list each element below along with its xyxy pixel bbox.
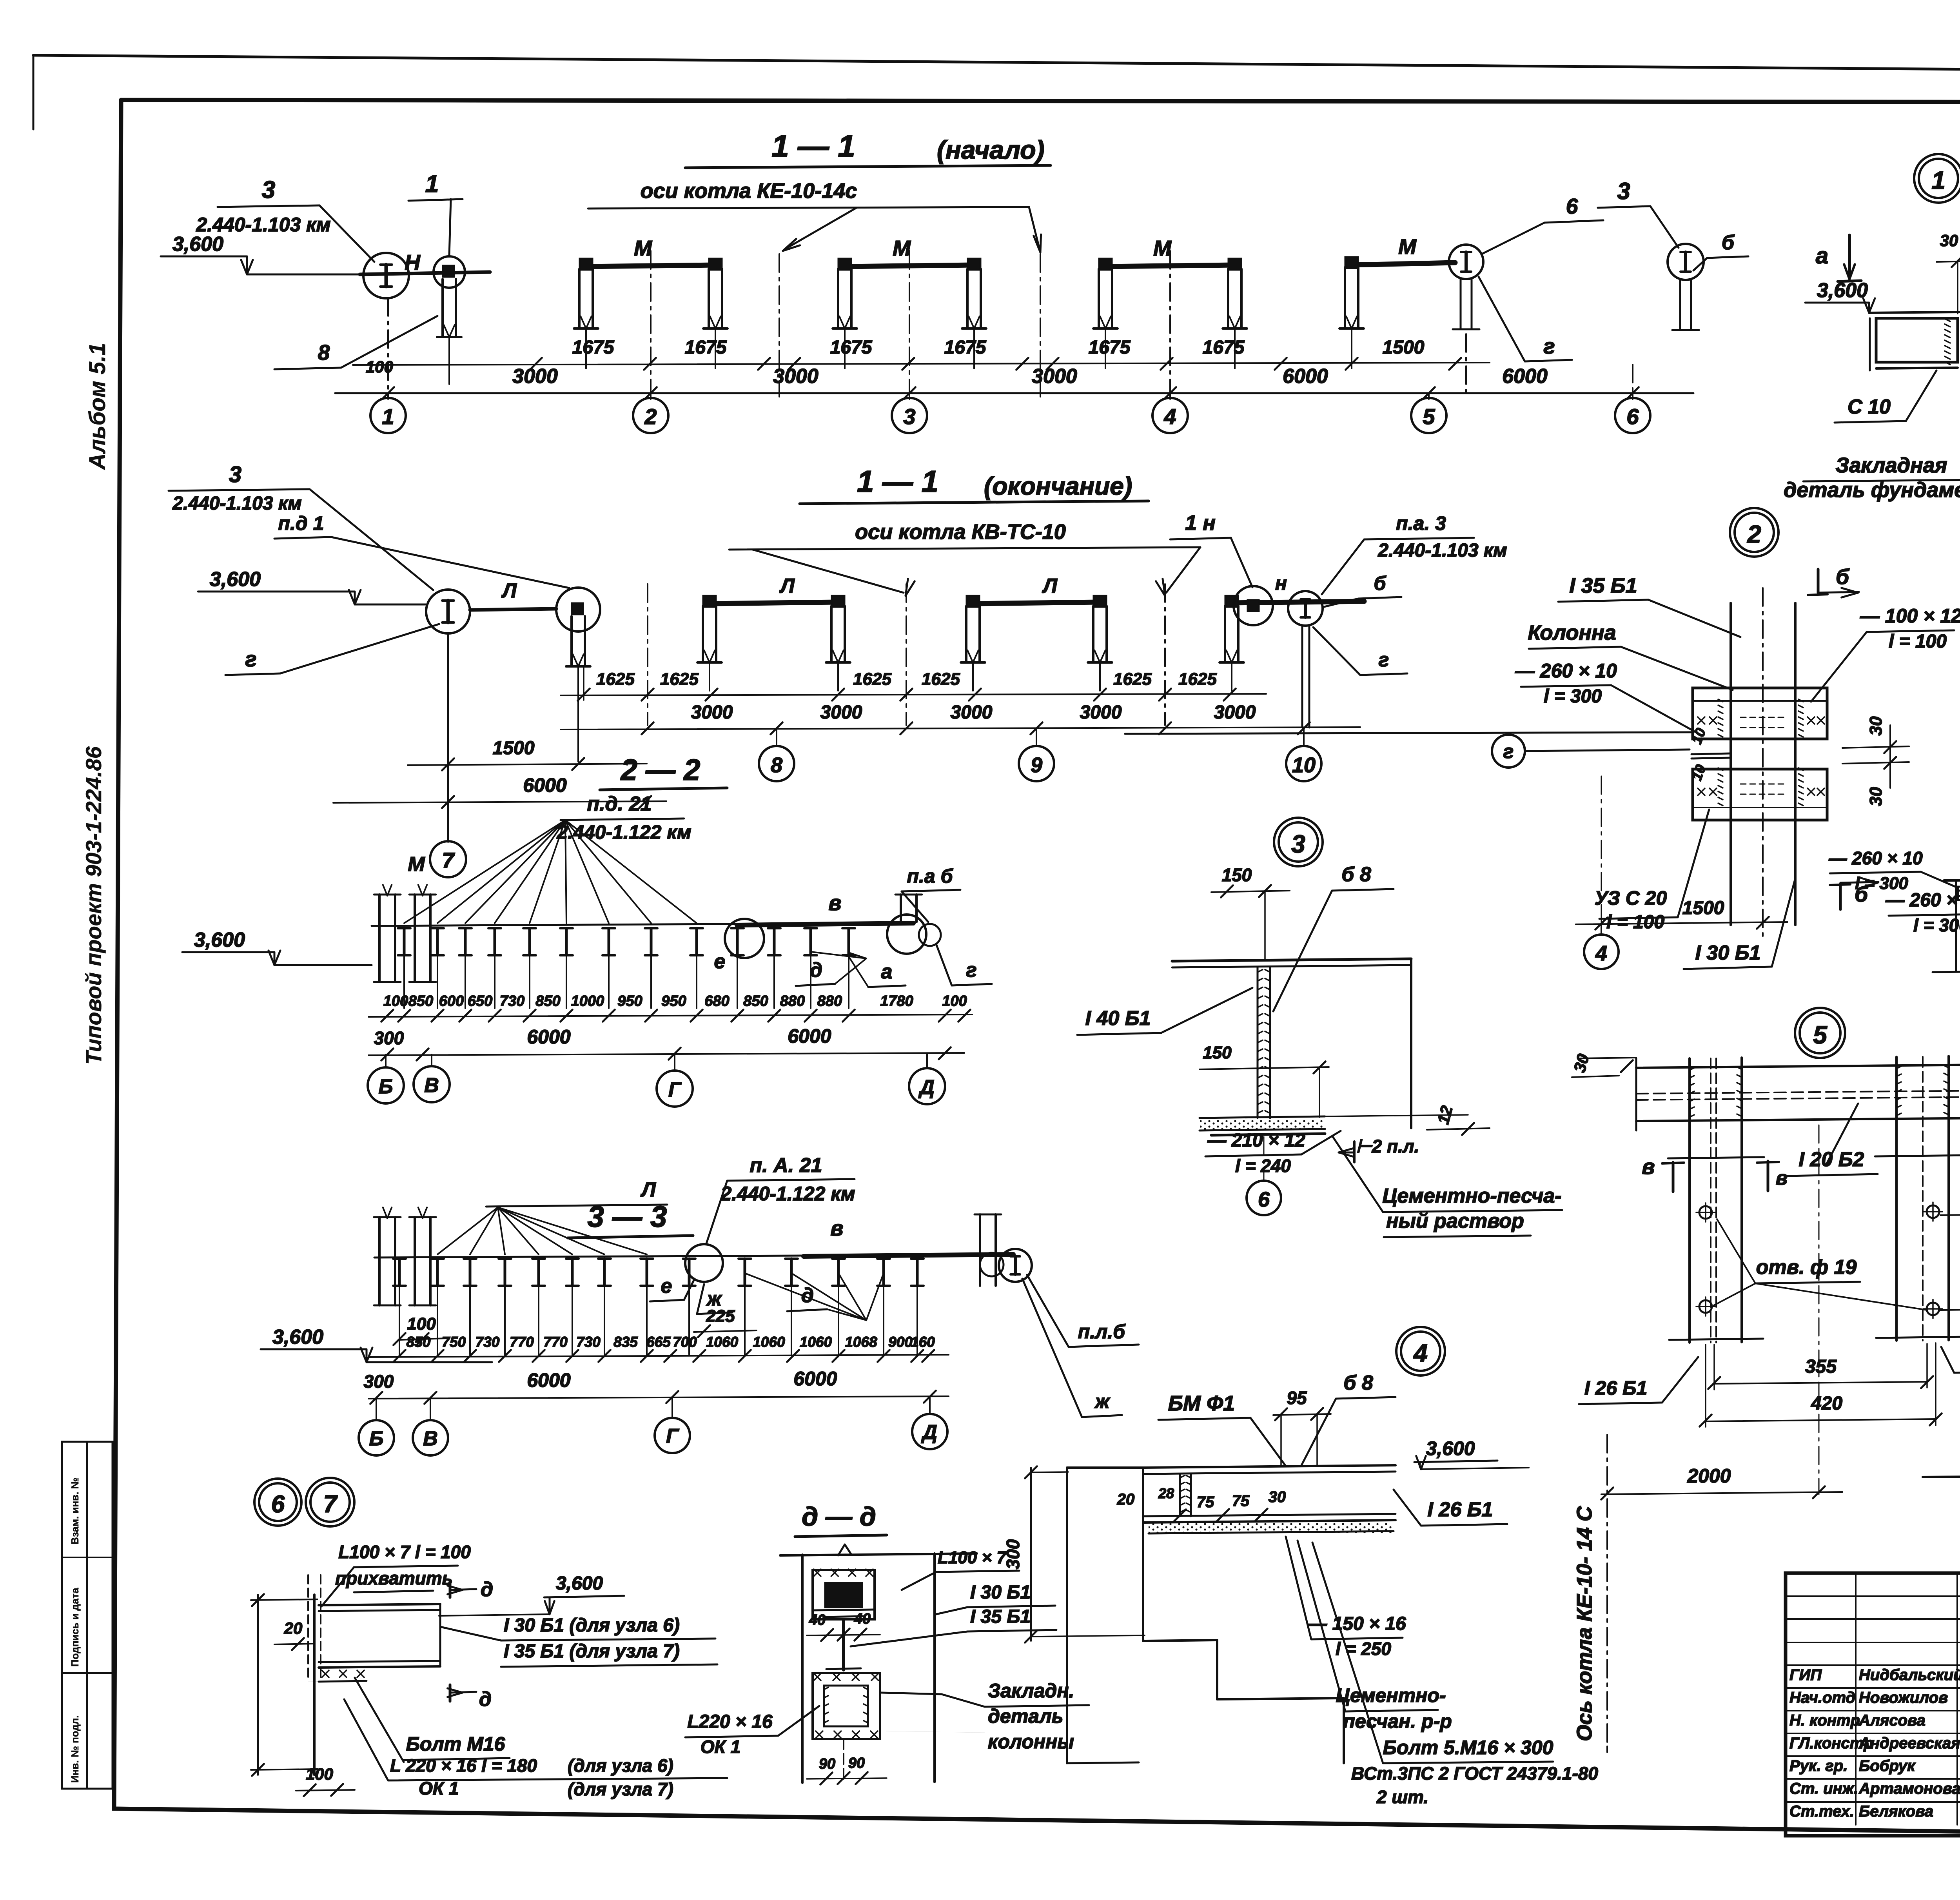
- svg-text:4: 4: [1413, 1339, 1428, 1367]
- node circle at axis 6: [1668, 244, 1704, 280]
- svg-text:М: М: [893, 236, 911, 260]
- axis circle 4 uzel2: [1601, 924, 1602, 934]
- svg-text:Д: Д: [921, 1421, 937, 1444]
- svg-text:8: 8: [771, 753, 782, 777]
- uzel2 plate assembly: [1693, 688, 1827, 739]
- svg-text:850: 850: [408, 993, 433, 1009]
- svg-text:г: г: [966, 959, 977, 982]
- svg-text:2.440-1.122 км: 2.440-1.122 км: [720, 1183, 855, 1205]
- svg-text:95: 95: [1287, 1388, 1307, 1408]
- svg-text:6: 6: [1566, 194, 1578, 218]
- svg-text:I 35 Б1 (для узла 7): I 35 Б1 (для узла 7): [504, 1641, 680, 1662]
- svg-text:3000: 3000: [691, 702, 733, 723]
- svg-text:БМ Ф1: БМ Ф1: [1168, 1392, 1235, 1415]
- margin stamp boxes: [62, 1442, 113, 1789]
- svg-text:3,600: 3,600: [172, 233, 223, 256]
- svg-text:оси котла КВ-ТС-10: оси котла КВ-ТС-10: [855, 520, 1066, 544]
- svg-text:2000: 2000: [1687, 1465, 1731, 1487]
- svg-text:1625: 1625: [596, 670, 635, 689]
- svg-text:880: 880: [780, 993, 805, 1009]
- svg-text:2: 2: [644, 404, 657, 429]
- svg-text:Б: Б: [369, 1427, 384, 1450]
- beam segment A: [360, 272, 490, 274]
- svg-text:(для узла 6): (для узла 6): [568, 1755, 673, 1776]
- svg-text:1068: 1068: [845, 1334, 877, 1350]
- svg-text:1: 1: [382, 404, 394, 429]
- svg-text:20: 20: [284, 1619, 303, 1637]
- svg-text:I 30 Б1: I 30 Б1: [1695, 942, 1761, 964]
- svg-text:Закладная: Закладная: [1836, 454, 1947, 477]
- svg-text:8: 8: [318, 340, 330, 365]
- svg-text:300: 300: [364, 1371, 394, 1392]
- svg-text:д: д: [481, 1578, 493, 1601]
- svg-text:п.д 1: п.д 1: [278, 512, 324, 534]
- svg-text:Цементно-песча-: Цементно-песча-: [1382, 1185, 1561, 1207]
- beam 3-3: [374, 1256, 804, 1258]
- svg-text:ВСт.3ПС 2 ГОСТ 24379.1-80: ВСт.3ПС 2 ГОСТ 24379.1-80: [1351, 1763, 1598, 1784]
- svg-text:7: 7: [323, 1491, 338, 1518]
- svg-text:l = 100: l = 100: [1889, 631, 1947, 652]
- svg-text:880: 880: [817, 993, 842, 1009]
- svg-text:ОК 1: ОК 1: [419, 1778, 459, 1798]
- svg-text:L100 × 7 l = 100: L100 × 7 l = 100: [338, 1542, 471, 1562]
- svg-text:2 — 2: 2 — 2: [620, 753, 701, 787]
- svg-text:Белякова: Белякова: [1859, 1803, 1933, 1820]
- svg-text:1675: 1675: [685, 337, 727, 358]
- svg-text:75: 75: [1232, 1492, 1250, 1510]
- axis line: [909, 251, 910, 397]
- svg-text:Артамонова: Артамонова: [1858, 1780, 1960, 1797]
- M beam at axis 1660: [586, 265, 715, 267]
- svg-text:6: 6: [1258, 1188, 1270, 1211]
- svg-text:п.а б: п.а б: [907, 865, 953, 887]
- uzel3 beam I40: [1172, 959, 1411, 961]
- axis circles 1-6: [387, 393, 389, 399]
- svg-text:в: в: [1776, 1167, 1788, 1189]
- svg-text:Л: Л: [640, 1178, 656, 1201]
- right node 2-2: [887, 915, 926, 954]
- node circle b-g: [1449, 245, 1483, 279]
- node marker circle 3: [1274, 818, 1323, 866]
- svg-text:д: д: [479, 1688, 492, 1711]
- svg-text:3000: 3000: [1080, 702, 1122, 723]
- svg-text:3000: 3000: [512, 365, 558, 388]
- svg-text:1625: 1625: [1178, 670, 1217, 689]
- svg-text:665: 665: [646, 1334, 671, 1350]
- svg-text:770: 770: [510, 1334, 534, 1350]
- svg-text:Д: Д: [918, 1076, 935, 1099]
- node circle e 2-2: [725, 919, 764, 958]
- beam segment 3 and node 1n: [1230, 601, 1364, 603]
- svg-text:2 шт.: 2 шт.: [1376, 1787, 1428, 1807]
- d-d I beam symbol: [842, 1619, 845, 1670]
- svg-text:4: 4: [1595, 942, 1607, 965]
- svg-text:1625: 1625: [853, 670, 891, 689]
- dim 300 uzel4: [1030, 1468, 1032, 1641]
- svg-text:ГИП: ГИП: [1789, 1666, 1822, 1684]
- dim row 1625 okonchanie: [561, 694, 1266, 695]
- svg-text:в: в: [1642, 1154, 1655, 1179]
- svg-text:деталь фундамента: деталь фундамента: [1784, 478, 1960, 502]
- svg-text:900: 900: [888, 1334, 913, 1350]
- svg-text:7: 7: [442, 848, 455, 873]
- svg-text:Бобрук: Бобрук: [1859, 1757, 1916, 1775]
- svg-text:1060: 1060: [706, 1334, 739, 1350]
- svg-text:п.а. 3: п.а. 3: [1396, 512, 1446, 534]
- svg-text:1060: 1060: [753, 1334, 785, 1350]
- svg-text:3000: 3000: [820, 702, 862, 723]
- svg-text:6000: 6000: [788, 1025, 831, 1047]
- svg-text:850: 850: [743, 993, 768, 1009]
- svg-text:I 35 Б1: I 35 Б1: [1569, 574, 1637, 597]
- svg-text:420: 420: [1811, 1393, 1842, 1414]
- svg-text:Алясова: Алясова: [1858, 1712, 1926, 1729]
- svg-text:Подпись и дата: Подпись и дата: [69, 1588, 81, 1667]
- dim 355 420 uzel5: [1714, 1382, 1927, 1384]
- svg-text:ОК 1: ОК 1: [701, 1737, 740, 1757]
- svg-text:100: 100: [366, 357, 393, 376]
- columns left 2-2: [378, 895, 381, 982]
- uzel4 foundation outline: [1067, 1466, 1143, 1469]
- axis circle 6 uzel3: [1263, 1137, 1265, 1180]
- uzel5 left column: [1688, 1058, 1691, 1343]
- svg-text:5: 5: [1813, 1021, 1828, 1049]
- svg-text:L100 × 7: L100 × 7: [938, 1548, 1007, 1567]
- section mark d lower: [449, 1685, 452, 1701]
- svg-text:770: 770: [543, 1334, 568, 1350]
- svg-text:950: 950: [617, 993, 642, 1009]
- axis circles B V G D 2-2: [385, 1054, 387, 1067]
- svg-text:L220 × 16: L220 × 16: [687, 1711, 773, 1732]
- svg-text:Колонна: Колонна: [1528, 621, 1616, 644]
- M beam at axis 2985: [1105, 265, 1235, 267]
- svg-text:30: 30: [1866, 787, 1886, 806]
- svg-text:УЗ С 20: УЗ С 20: [1595, 887, 1667, 909]
- svg-text:Взам. инв. №: Взам. инв. №: [69, 1477, 81, 1544]
- svg-text:9: 9: [1031, 753, 1042, 777]
- svg-text:в: в: [828, 891, 841, 915]
- svg-text:6: 6: [271, 1491, 285, 1518]
- svg-text:С 10: С 10: [1847, 396, 1891, 418]
- dimension row 1675: [353, 363, 1490, 365]
- svg-text:1675: 1675: [1089, 337, 1131, 358]
- svg-text:l = 300: l = 300: [1913, 915, 1960, 935]
- M beam at axis 5 with node: [1352, 263, 1455, 265]
- svg-text:М: М: [634, 236, 652, 260]
- svg-text:Ст.тех.: Ст.тех.: [1789, 1803, 1854, 1820]
- dim line left okonchanie: [333, 801, 666, 803]
- svg-text:1500: 1500: [1682, 898, 1724, 918]
- svg-text:1625: 1625: [922, 670, 960, 689]
- svg-text:225: 225: [706, 1307, 735, 1326]
- sheet top edge line: [33, 55, 1960, 74]
- L beam segments okonchanie: [710, 602, 838, 604]
- svg-text:б: б: [1722, 231, 1735, 254]
- svg-text:6000: 6000: [527, 1026, 570, 1048]
- svg-text:Нидбальский: Нидбальский: [1859, 1666, 1960, 1684]
- svg-text:1675: 1675: [830, 337, 873, 358]
- axis circles 8 9 10: [776, 728, 777, 746]
- svg-text:3,600: 3,600: [194, 929, 245, 951]
- right columns 2-2: [900, 895, 902, 922]
- svg-text:3,600: 3,600: [272, 1326, 323, 1348]
- uzel5 right column: [1895, 1057, 1898, 1341]
- svg-text:оси котла КЕ-10-14с: оси котла КЕ-10-14с: [641, 179, 857, 203]
- svg-text:1 — 1: 1 — 1: [771, 129, 855, 163]
- node marker circle 4: [1396, 1327, 1445, 1376]
- g-g block: [1944, 879, 1960, 880]
- svg-text:б: б: [1836, 564, 1850, 589]
- svg-text:3: 3: [1617, 178, 1630, 204]
- svg-text:— 260 × 10: — 260 × 10: [1828, 848, 1923, 868]
- svg-text:1675: 1675: [1203, 337, 1245, 358]
- svg-text:деталь: деталь: [988, 1705, 1063, 1727]
- d-d outer box: [801, 1555, 804, 1783]
- svg-text:п.д. 21: п.д. 21: [587, 793, 652, 815]
- M beam at axis 2320: [845, 265, 974, 267]
- svg-text:М: М: [408, 853, 425, 876]
- axis circle 7: [447, 839, 449, 842]
- svg-text:150: 150: [1203, 1043, 1232, 1062]
- svg-text:20: 20: [1117, 1491, 1135, 1508]
- svg-text:6000: 6000: [1502, 365, 1548, 388]
- uzel2 column verticals: [1730, 603, 1732, 925]
- svg-text:3000: 3000: [773, 365, 818, 388]
- svg-text:680: 680: [704, 993, 729, 1009]
- svg-text:3: 3: [229, 462, 241, 487]
- svg-text:Б: Б: [379, 1075, 393, 1098]
- svg-text:1500: 1500: [493, 738, 535, 759]
- svg-text:750: 750: [442, 1334, 466, 1350]
- node marker circle 2: [1730, 508, 1779, 557]
- svg-text:ж: ж: [1094, 1390, 1111, 1412]
- svg-text:Новожилов: Новожилов: [1859, 1689, 1948, 1706]
- svg-text:е: е: [714, 950, 726, 973]
- svg-text:— 210 × 12: — 210 × 12: [1207, 1130, 1305, 1151]
- svg-text:2.440-1.122 км: 2.440-1.122 км: [556, 821, 691, 843]
- svg-text:6000: 6000: [793, 1368, 837, 1390]
- svg-text:— 260 × 10: — 260 × 10: [1515, 660, 1617, 682]
- title block left grid: [1786, 1595, 1960, 1597]
- svg-text:3,600: 3,600: [1426, 1437, 1475, 1459]
- svg-text:I 20 Б2: I 20 Б2: [1799, 1148, 1864, 1171]
- svg-text:е: е: [661, 1275, 672, 1298]
- svg-text:1: 1: [1931, 166, 1945, 194]
- svg-text:2.440-1.103 км: 2.440-1.103 км: [1377, 540, 1507, 561]
- uzel5 centerline down: [1818, 1125, 1820, 1494]
- section mark d upper: [449, 1582, 452, 1597]
- dim row 6000 3-3: [368, 1396, 949, 1399]
- svg-text:б 8: б 8: [1343, 1372, 1373, 1394]
- svg-text:⊢2 п.л.: ⊢2 п.л.: [1356, 1136, 1419, 1156]
- column below node: [441, 279, 444, 337]
- svg-text:160: 160: [911, 1334, 935, 1350]
- svg-text:г: г: [1503, 740, 1514, 762]
- dim 1500: [408, 764, 647, 765]
- svg-text:75: 75: [1197, 1494, 1214, 1511]
- uzel1 embedded channel detail: [1869, 312, 1960, 313]
- svg-text:835: 835: [613, 1334, 638, 1350]
- svg-text:I 40 Б1: I 40 Б1: [1085, 1007, 1151, 1030]
- svg-text:3000: 3000: [951, 702, 993, 723]
- svg-text:1675: 1675: [572, 337, 615, 358]
- svg-text:6000: 6000: [527, 1369, 570, 1391]
- uzel3 bottom plate: [1200, 1116, 1325, 1118]
- dim row small 2-2: [368, 1014, 972, 1017]
- svg-text:3,600: 3,600: [1817, 279, 1868, 302]
- right node 3-3: [999, 1249, 1032, 1282]
- svg-text:6000: 6000: [1283, 365, 1328, 388]
- svg-text:300: 300: [374, 1028, 404, 1048]
- svg-text:90: 90: [848, 1755, 865, 1771]
- svg-text:5: 5: [1423, 404, 1435, 429]
- svg-text:l = 300: l = 300: [1855, 874, 1908, 893]
- svg-text:Ось котла КЕ-10- 14 С: Ось котла КЕ-10- 14 С: [1573, 1506, 1596, 1741]
- svg-text:950: 950: [661, 993, 686, 1009]
- axis line 1: [387, 298, 389, 397]
- svg-text:600: 600: [439, 993, 464, 1009]
- svg-text:1625: 1625: [660, 670, 699, 689]
- svg-text:Андреевская: Андреевская: [1858, 1735, 1960, 1752]
- uzel5 beam: [1636, 1065, 1960, 1068]
- dim row 6000 2-2: [368, 1053, 964, 1055]
- dim 2000: [1601, 1492, 1842, 1494]
- node marker circle 1: [1914, 154, 1960, 203]
- svg-text:1 н: 1 н: [1185, 511, 1216, 535]
- svg-text:б: б: [1374, 572, 1387, 594]
- svg-text:I 30 Б1: I 30 Б1: [970, 1582, 1031, 1603]
- svg-text:колонны: колонны: [988, 1731, 1074, 1753]
- columns left 3-3: [378, 1217, 381, 1305]
- svg-text:6: 6: [1626, 404, 1639, 429]
- svg-text:100: 100: [306, 1765, 333, 1783]
- svg-text:1 — 1: 1 — 1: [857, 464, 938, 499]
- svg-text:355: 355: [1805, 1356, 1837, 1377]
- svg-text:730: 730: [576, 1334, 601, 1350]
- svg-text:прихватить: прихватить: [335, 1568, 453, 1588]
- node circle column okonchanie: [556, 588, 600, 632]
- svg-text:Г: Г: [666, 1425, 679, 1448]
- axis line: [650, 251, 652, 397]
- svg-text:1780: 1780: [880, 993, 913, 1009]
- svg-text:L 220 × 16 l = 180: L 220 × 16 l = 180: [390, 1755, 537, 1776]
- svg-text:В: В: [423, 1427, 438, 1450]
- node circle with I at axis 1: [363, 253, 409, 298]
- svg-text:730: 730: [500, 993, 524, 1009]
- hangers 2-2: [398, 927, 410, 929]
- main title block: [1786, 1573, 1960, 1836]
- svg-text:д: д: [810, 959, 822, 982]
- svg-text:песчан. р-р: песчан. р-р: [1343, 1710, 1452, 1732]
- svg-text:Н: Н: [405, 250, 421, 274]
- svg-text:Болт 5.М16 × 300: Болт 5.М16 × 300: [1383, 1737, 1553, 1758]
- dim 1500 uzel2: [1576, 922, 1788, 924]
- svg-text:30: 30: [1940, 231, 1958, 250]
- d-d lower plate box: [813, 1673, 880, 1739]
- svg-text:г: г: [245, 647, 256, 671]
- svg-text:2: 2: [1747, 520, 1761, 548]
- svg-text:2.440-1.103 км: 2.440-1.103 км: [172, 493, 301, 514]
- svg-text:1000: 1000: [571, 993, 604, 1009]
- svg-text:6000: 6000: [523, 774, 566, 796]
- svg-text:1675: 1675: [944, 337, 987, 358]
- svg-text:отв. ф 19: отв. ф 19: [1756, 1256, 1857, 1279]
- svg-text:в: в: [830, 1216, 843, 1240]
- svg-text:п. А. 21: п. А. 21: [750, 1154, 822, 1177]
- svg-text:l = 300: l = 300: [1544, 686, 1602, 707]
- uzel4 beam: [1143, 1465, 1396, 1468]
- svg-text:3: 3: [1291, 830, 1305, 858]
- svg-text:Л: Л: [501, 579, 517, 602]
- column node circle axis 1: [434, 256, 465, 288]
- svg-text:850: 850: [407, 1334, 431, 1350]
- svg-text:Рук. гр.: Рук. гр.: [1789, 1757, 1847, 1775]
- dimension row 3000: [335, 392, 1693, 394]
- svg-text:Болт М16: Болт М16: [406, 1733, 506, 1755]
- svg-text:(окончание): (окончание): [984, 472, 1132, 500]
- svg-text:730: 730: [475, 1334, 500, 1350]
- dim line right okonchanie: [561, 727, 1360, 730]
- node circle I okonchanie: [426, 590, 470, 633]
- svg-text:l = 100: l = 100: [1606, 912, 1664, 933]
- svg-text:г: г: [1379, 649, 1389, 671]
- svg-text:г: г: [1543, 334, 1555, 358]
- axis circles B V G D 3-3: [376, 1398, 377, 1420]
- svg-text:l = 240: l = 240: [1235, 1156, 1291, 1176]
- svg-text:650: 650: [468, 993, 492, 1009]
- svg-text:ный раствор: ный раствор: [1386, 1210, 1524, 1232]
- svg-text:1060: 1060: [800, 1334, 832, 1350]
- svg-text:б 8: б 8: [1341, 863, 1371, 886]
- node marker circles 6 and 7: [254, 1479, 301, 1526]
- uzel4 mortar strip: [1149, 1523, 1392, 1533]
- svg-text:М: М: [1153, 236, 1172, 260]
- dim row small 3-3: [368, 1355, 949, 1357]
- svg-text:Н. контр: Н. контр: [1789, 1712, 1860, 1729]
- svg-text:I 26 Б1: I 26 Б1: [1428, 1498, 1493, 1521]
- svg-text:Типовой проект 903-1-224.86: Типовой проект 903-1-224.86: [81, 746, 106, 1065]
- svg-text:700: 700: [673, 1334, 697, 1350]
- svg-text:90: 90: [819, 1756, 835, 1772]
- svg-text:Альбом 5.1: Альбом 5.1: [85, 343, 110, 470]
- axis line: [1169, 251, 1171, 397]
- uzel67 vertical dim line: [257, 1595, 259, 1775]
- svg-text:н: н: [1275, 572, 1287, 594]
- svg-text:1625: 1625: [1113, 670, 1152, 689]
- svg-text:Инв. № подл.: Инв. № подл.: [69, 1715, 81, 1783]
- svg-text:40: 40: [809, 1612, 826, 1628]
- svg-text:3,600: 3,600: [556, 1573, 603, 1594]
- svg-text:2.440-1.103 км: 2.440-1.103 км: [196, 214, 330, 236]
- svg-text:3,600: 3,600: [210, 568, 261, 591]
- svg-text:Г: Г: [668, 1078, 682, 1101]
- d-d upper plate box: [813, 1570, 875, 1619]
- uzel67 wall and beam: [313, 1595, 316, 1775]
- svg-text:а: а: [1816, 243, 1828, 269]
- svg-text:150: 150: [1222, 865, 1252, 885]
- svg-text:850: 850: [535, 993, 560, 1009]
- boiler axis dashdot lines okonchanie: [647, 584, 648, 725]
- fan leader lines 2-2: [404, 820, 565, 923]
- uzel67 lower bracket: [319, 1667, 367, 1668]
- svg-text:п.л.б: п.л.б: [1078, 1321, 1126, 1343]
- fan lines 3-3: [486, 1205, 667, 1207]
- svg-text:а: а: [881, 960, 893, 983]
- svg-text:Цементно-: Цементно-: [1336, 1684, 1446, 1706]
- svg-text:40: 40: [854, 1611, 871, 1627]
- svg-text:(начало): (начало): [937, 135, 1045, 164]
- svg-text:100: 100: [383, 993, 408, 1009]
